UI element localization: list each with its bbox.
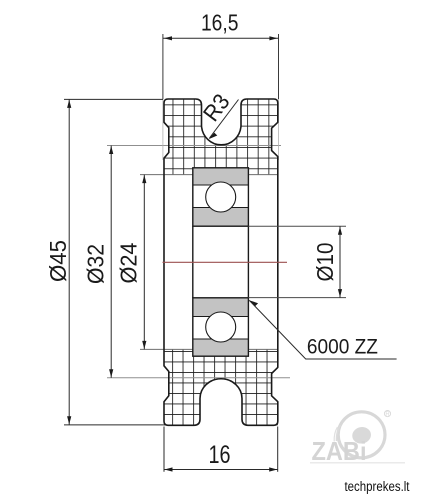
dimension 16,5 arrow right xyxy=(269,36,277,40)
extension line dia32 lower xyxy=(107,377,290,379)
svg-text:Ø45: Ø45 xyxy=(45,240,71,282)
extension line dia10 top xyxy=(248,225,346,227)
extension line 16,5 left upper xyxy=(162,34,164,99)
extension line 16,5 left along part xyxy=(162,99,164,160)
dimension dia45 arrow bottom xyxy=(67,416,71,424)
bearing lower raceway band xyxy=(194,317,248,339)
bearing lower inner race boundary xyxy=(193,316,249,318)
dimension 16 line xyxy=(164,469,278,471)
dimension dia45 arrow top xyxy=(67,100,71,108)
bearing upper inner race boundary xyxy=(193,207,249,209)
leader R3 line xyxy=(210,100,239,139)
dimension 16 arrow left xyxy=(164,467,172,471)
leader 6000 ZZ line xyxy=(249,300,396,359)
bearing upper outer race boundary xyxy=(193,184,249,186)
dimension dia32 arrow top xyxy=(109,146,113,154)
svg-text:Ø24: Ø24 xyxy=(116,242,142,283)
bearing 6000 ZZ lower section block xyxy=(193,298,249,356)
dimension 16,5 line xyxy=(163,37,279,39)
dimension dia24 line xyxy=(143,175,145,350)
pulley rim cross-hatch, lower half xyxy=(164,349,278,425)
svg-text:techprekes.lt: techprekes.lt xyxy=(345,479,410,494)
extension line 16 left xyxy=(163,427,165,472)
dimension dia10 arrow top xyxy=(338,227,342,235)
bearing lower outer race boundary xyxy=(193,338,249,340)
bearing upper raceway band xyxy=(194,185,248,207)
extension line dia32 upper (groove bottom) xyxy=(107,145,281,147)
bearing ball lower xyxy=(206,312,236,342)
dimension dia32 line xyxy=(110,146,112,378)
extension line dia45 top xyxy=(64,98,163,100)
dimension 16,5 arrow left xyxy=(164,36,172,40)
hub bore edge dia24 lower left + extension xyxy=(140,348,193,350)
bearing ball upper xyxy=(206,182,236,212)
ZABI logo watermark xyxy=(310,411,405,467)
extension line 16,5 right upper xyxy=(278,34,280,99)
leader R3 arrow xyxy=(209,133,218,140)
axis centerline (red) xyxy=(163,261,288,263)
svg-text:R: R xyxy=(385,412,390,418)
svg-text:16: 16 xyxy=(209,441,231,469)
svg-text:Ø10: Ø10 xyxy=(312,243,338,282)
shaft bore wall left xyxy=(192,226,194,298)
hub bore edge dia24 upper right xyxy=(248,174,277,176)
svg-text:6000 ZZ: 6000 ZZ xyxy=(307,334,378,358)
dimension dia10 line xyxy=(339,226,341,297)
dimension dia45 line xyxy=(68,99,70,424)
pulley section outline with rope grooves and side recesses xyxy=(164,99,278,425)
extension line dia45 bottom xyxy=(64,424,165,426)
hub bore edge dia24 upper left + extension xyxy=(140,174,193,176)
dimension dia32 arrow bottom xyxy=(109,369,113,377)
extension line 16 right xyxy=(277,427,279,472)
dimension dia24 arrow bottom xyxy=(142,341,146,349)
extension line dia10 bottom xyxy=(248,297,346,299)
extension line 16,5 right along part xyxy=(278,99,280,160)
hub bore edge dia24 lower right xyxy=(248,348,277,350)
dimension dia24 arrow top xyxy=(142,175,146,183)
svg-text:ZABi: ZABi xyxy=(312,436,367,466)
dimension 16 arrow right xyxy=(269,467,277,471)
svg-text:Ø32: Ø32 xyxy=(83,244,109,284)
bearing 6000 ZZ upper section block xyxy=(193,168,249,226)
shaft bore wall right xyxy=(247,226,249,298)
pulley rim cross-hatch, upper half xyxy=(164,99,278,175)
dimension dia10 arrow bottom xyxy=(338,289,342,297)
leader 6000 ZZ arrow xyxy=(249,300,258,306)
svg-text:16,5: 16,5 xyxy=(201,10,239,36)
